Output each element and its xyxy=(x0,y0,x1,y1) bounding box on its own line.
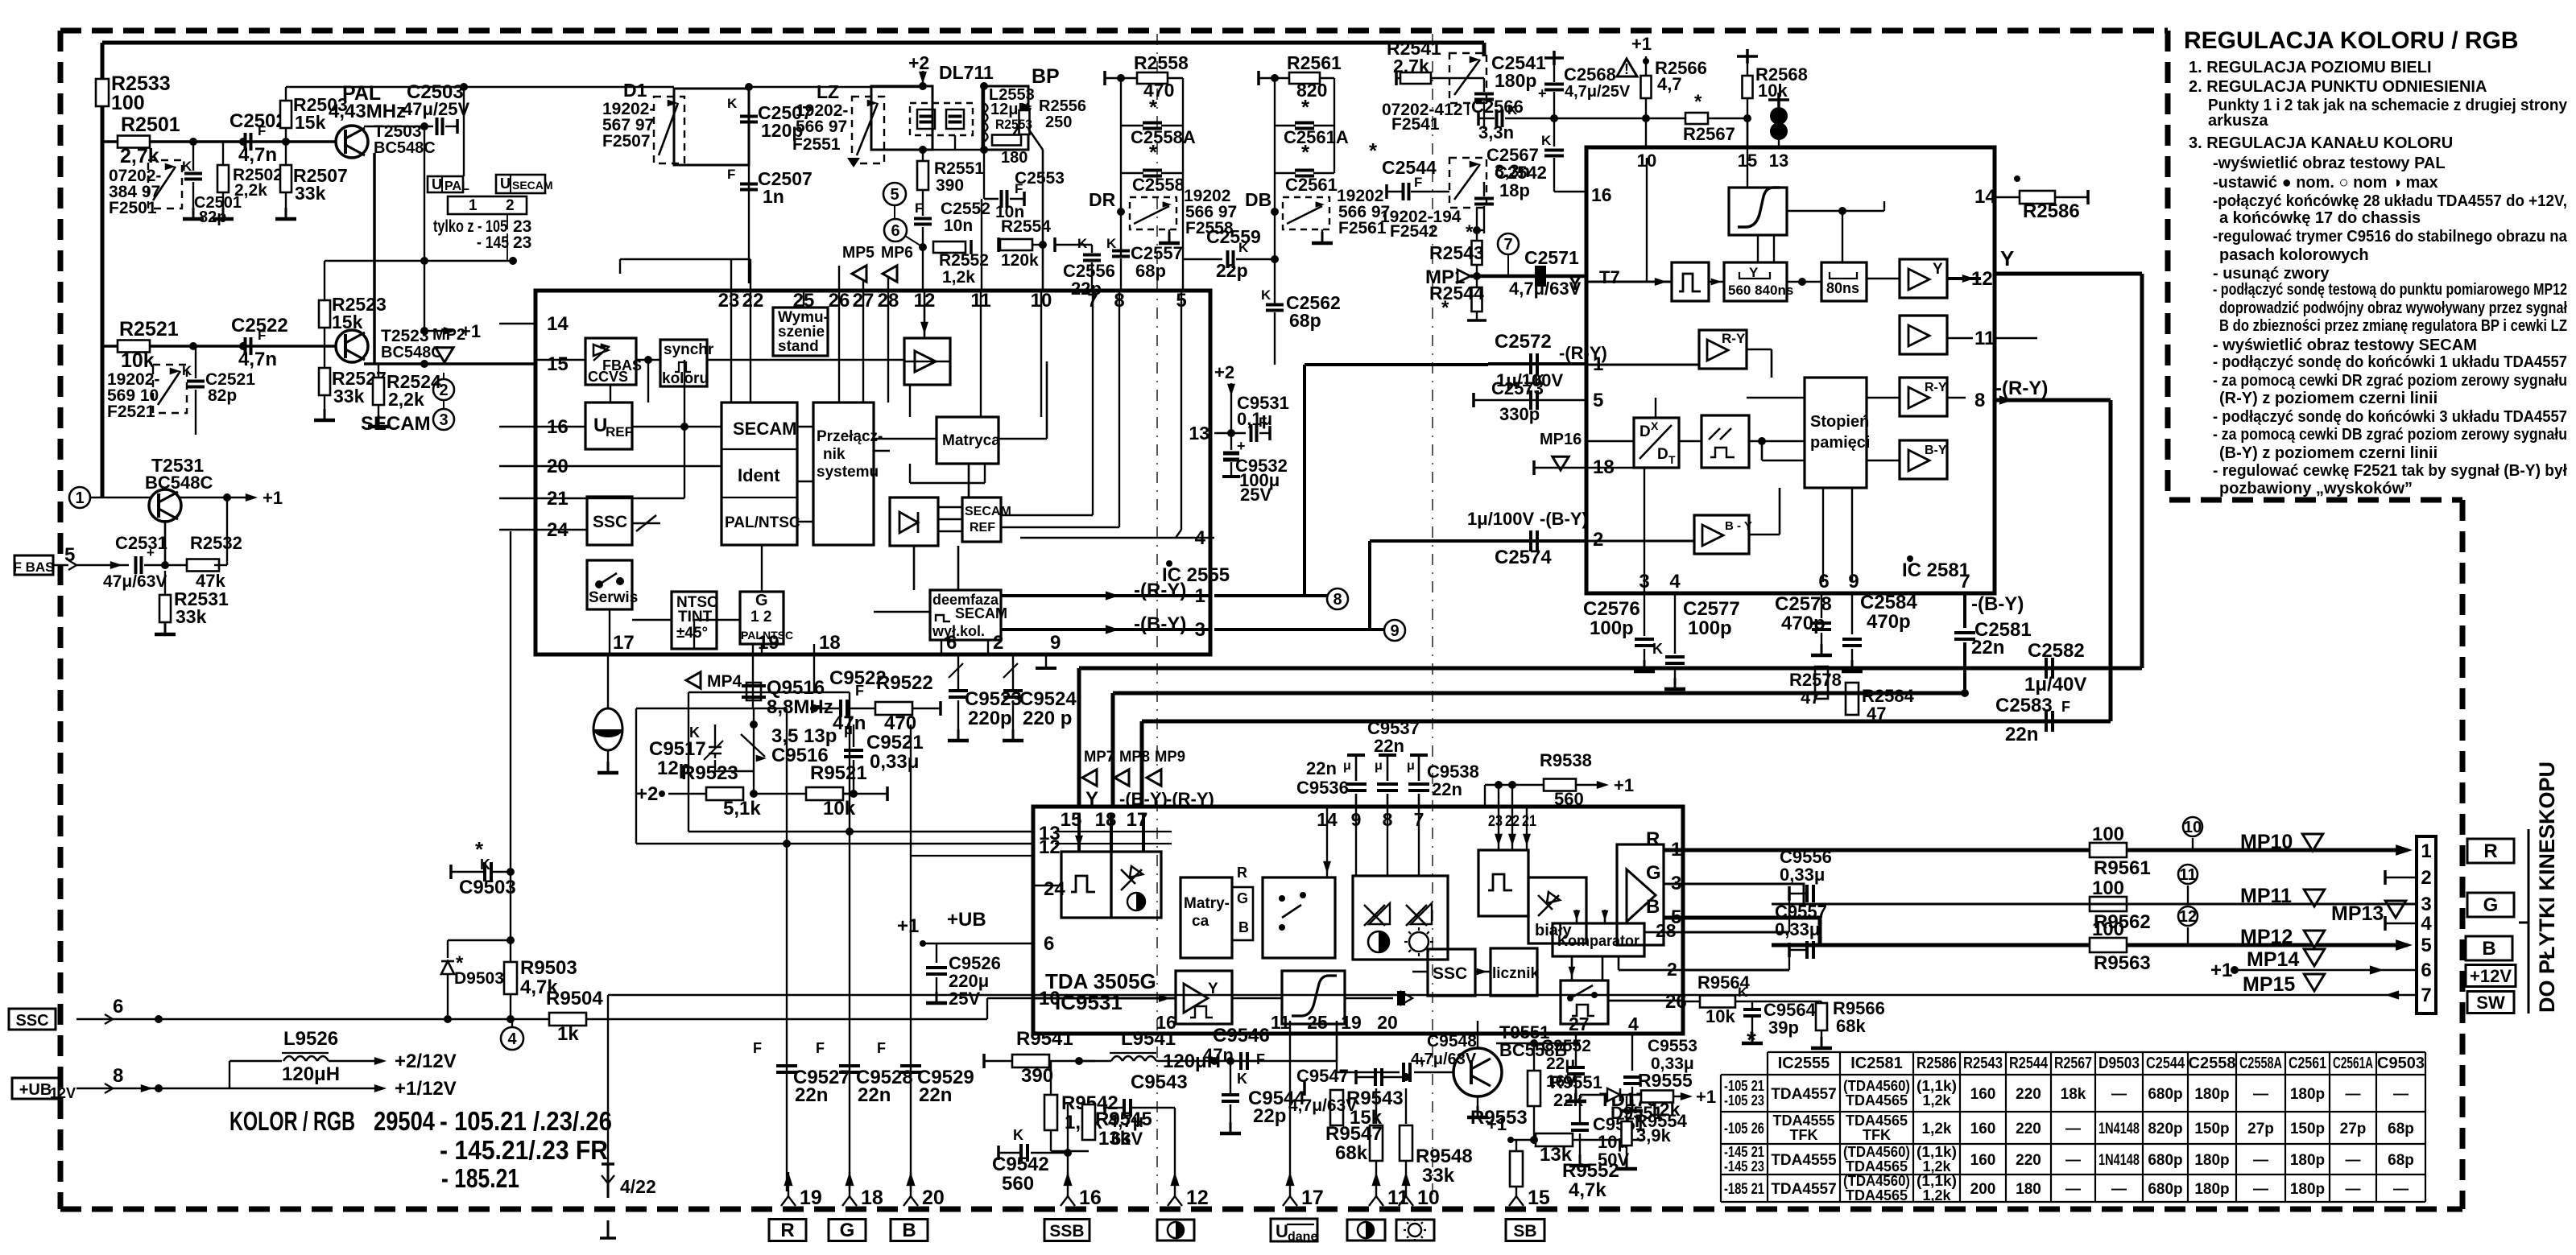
svg-text:MP16: MP16 xyxy=(1540,431,1582,448)
svg-text:DB: DB xyxy=(1245,189,1271,210)
svg-text:G: G xyxy=(1237,890,1248,906)
svg-text:—: — xyxy=(2253,1086,2268,1103)
svg-text:BC548C: BC548C xyxy=(145,473,213,493)
svg-text:F2501: F2501 xyxy=(109,199,157,217)
svg-text:—: — xyxy=(2346,1152,2361,1169)
svg-text:11: 11 xyxy=(1271,1012,1291,1033)
svg-text:180p: 180p xyxy=(2194,1152,2229,1169)
svg-text:-wyświetlić obraz testowy: -wyświetlić obraz testowy PAL xyxy=(2213,155,2446,172)
svg-text:39p: 39p xyxy=(1768,1018,1799,1038)
svg-text:SB: SB xyxy=(1513,1222,1536,1241)
svg-text:470: 470 xyxy=(1143,80,1174,101)
svg-text:8: 8 xyxy=(1333,591,1342,609)
svg-text:390: 390 xyxy=(936,176,964,195)
svg-text:TFK: TFK xyxy=(1790,1127,1818,1143)
svg-text:—: — xyxy=(2346,1181,2361,1198)
svg-text:Matry-: Matry- xyxy=(1184,895,1230,912)
svg-text:—: — xyxy=(2253,1152,2268,1169)
svg-text:- regulować cewkę F2521 tak: - regulować cewkę F2521 tak by sygnał (B… xyxy=(2213,462,2567,480)
svg-text:K: K xyxy=(1541,133,1552,148)
svg-text:K: K xyxy=(1238,240,1249,255)
svg-text:2,2k: 2,2k xyxy=(388,389,424,410)
svg-text:10: 10 xyxy=(1417,1187,1440,1209)
svg-text:Stopień: Stopień xyxy=(1810,413,1869,431)
svg-text:MP4: MP4 xyxy=(707,672,742,691)
svg-text:R: R xyxy=(1646,828,1660,850)
svg-text:F: F xyxy=(877,1040,886,1056)
svg-text:- podłączyć sondę do końc: - podłączyć sondę do końcówki 1 układu T… xyxy=(2213,353,2567,371)
svg-text:-ustawić ● nom. ○ nom: -ustawić ● nom. ○ nom ◑ max xyxy=(2213,174,2438,192)
svg-text:9: 9 xyxy=(1390,622,1399,640)
svg-text:2: 2 xyxy=(993,632,1003,654)
svg-text:REF: REF xyxy=(970,521,995,535)
svg-text:18: 18 xyxy=(819,632,841,654)
svg-text:F: F xyxy=(1414,175,1422,190)
svg-text:+1/12V: +1/12V xyxy=(395,1078,457,1100)
svg-text:3: 3 xyxy=(1639,571,1649,592)
svg-text:-105 23: -105 23 xyxy=(1724,1092,1764,1108)
svg-text:TDA4555: TDA4555 xyxy=(1771,1152,1837,1169)
svg-text:TDA4557: TDA4557 xyxy=(1771,1086,1836,1103)
svg-text:6: 6 xyxy=(1818,571,1829,592)
svg-text:MP13: MP13 xyxy=(2331,902,2384,925)
svg-text:1 2: 1 2 xyxy=(750,609,771,625)
svg-text:3,3n: 3,3n xyxy=(1478,122,1514,142)
svg-text:1μ/40V: 1μ/40V xyxy=(2024,674,2086,696)
svg-text:Przełącz-: Przełącz- xyxy=(817,428,883,445)
svg-text:22p: 22p xyxy=(1216,260,1248,281)
svg-text:33k: 33k xyxy=(333,386,365,407)
svg-text:(TDA4560): (TDA4560) xyxy=(1843,1078,1910,1094)
svg-text:-(B-Y): -(B-Y) xyxy=(1971,593,2024,615)
svg-text:R2551: R2551 xyxy=(934,159,984,178)
svg-text:8: 8 xyxy=(1974,390,1985,411)
svg-text:4: 4 xyxy=(1628,1013,1639,1034)
svg-text:SW: SW xyxy=(2476,993,2505,1013)
svg-text:C2582: C2582 xyxy=(2028,640,2085,662)
svg-text:10n: 10n xyxy=(944,217,973,235)
svg-text:SECAM: SECAM xyxy=(512,179,553,192)
svg-text:6: 6 xyxy=(2421,960,2431,981)
svg-text:23: 23 xyxy=(1488,813,1503,830)
svg-text:68p: 68p xyxy=(2388,1152,2414,1169)
svg-text:Matryca: Matryca xyxy=(942,432,1000,449)
svg-text:23: 23 xyxy=(513,233,531,252)
svg-text:12: 12 xyxy=(1971,268,1993,290)
svg-text:—: — xyxy=(2393,1181,2409,1198)
svg-text:C2558A: C2558A xyxy=(2239,1055,2282,1072)
svg-text:100p: 100p xyxy=(1688,617,1732,639)
svg-text:K: K xyxy=(182,363,192,378)
svg-text:C9548: C9548 xyxy=(1427,1032,1477,1051)
svg-text:K: K xyxy=(182,159,192,174)
svg-text:6: 6 xyxy=(113,996,123,1018)
svg-text:C2544: C2544 xyxy=(1382,157,1437,178)
svg-text:1: 1 xyxy=(469,197,478,214)
svg-text:C9546: C9546 xyxy=(1213,1025,1270,1047)
svg-text:1k: 1k xyxy=(557,1023,579,1045)
svg-text:MP8: MP8 xyxy=(1119,749,1150,766)
svg-text:MP9: MP9 xyxy=(1155,749,1185,766)
svg-text:+1: +1 xyxy=(263,488,283,508)
svg-text:-(B-Y): -(B-Y) xyxy=(1540,509,1588,529)
svg-text:systemu: systemu xyxy=(817,464,879,481)
svg-text:1,2k: 1,2k xyxy=(1922,1092,1951,1108)
svg-text:250: 250 xyxy=(1045,114,1072,131)
svg-text:68k: 68k xyxy=(1836,1016,1866,1036)
svg-text:470p: 470p xyxy=(1867,611,1911,633)
svg-text:R2544: R2544 xyxy=(2009,1055,2049,1072)
svg-text:680p: 680p xyxy=(2148,1086,2182,1103)
svg-text:pozbawiony „wyskoków”: pozbawiony „wyskoków” xyxy=(2219,480,2413,497)
svg-text:R2501: R2501 xyxy=(121,114,180,136)
svg-text:100: 100 xyxy=(2092,919,2124,940)
svg-text:F2561: F2561 xyxy=(1338,219,1387,237)
svg-text:F: F xyxy=(258,123,266,138)
svg-text:C2573: C2573 xyxy=(1491,378,1544,398)
svg-text:C9503: C9503 xyxy=(459,877,516,898)
svg-text:a końcówkę 17 do chassis: a końcówkę 17 do chassis xyxy=(2219,209,2421,227)
svg-text:22n: 22n xyxy=(1374,736,1404,756)
svg-text:*: * xyxy=(1369,138,1378,163)
svg-text:C2572: C2572 xyxy=(1495,331,1552,353)
svg-text:12: 12 xyxy=(1039,836,1061,858)
svg-text:C2558: C2558 xyxy=(1132,175,1185,195)
svg-text:-105 26: -105 26 xyxy=(1724,1121,1764,1137)
svg-text:-(R-Y): -(R-Y) xyxy=(1166,789,1214,809)
svg-text:C9547: C9547 xyxy=(1296,1066,1349,1086)
svg-text:0,1μ: 0,1μ xyxy=(1237,409,1272,429)
svg-text:C2568: C2568 xyxy=(1564,64,1616,85)
svg-text:Y: Y xyxy=(1933,261,1943,278)
svg-text:L9526: L9526 xyxy=(283,1028,338,1050)
svg-text:R2553: R2553 xyxy=(995,117,1032,132)
svg-text:160: 160 xyxy=(1970,1086,1996,1103)
svg-text:-145 21: -145 21 xyxy=(1724,1144,1764,1160)
svg-text:22n: 22n xyxy=(1971,637,2004,658)
svg-text:- podłączyć sondę testową d: - podłączyć sondę testową do punktu pomi… xyxy=(2213,281,2567,299)
svg-text:(B-Y) z poziomem czerni: (B-Y) z poziomem czerni linii xyxy=(2219,444,2437,462)
svg-text:4: 4 xyxy=(507,1030,517,1048)
svg-text:B do zbiezności przez zmia: B do zbiezności przez zmianę regulatora … xyxy=(2219,317,2567,335)
svg-text:22n: 22n xyxy=(1432,779,1462,799)
svg-text:-185 21: -185 21 xyxy=(1724,1181,1764,1198)
svg-text:+: + xyxy=(1538,85,1547,101)
svg-text:F2541: F2541 xyxy=(1391,115,1440,134)
svg-text:(1,1k): (1,1k) xyxy=(1916,1144,1957,1160)
svg-text:T2523: T2523 xyxy=(381,327,429,345)
svg-text:F2521: F2521 xyxy=(107,403,155,421)
svg-text:27: 27 xyxy=(1569,1013,1590,1034)
svg-text:T7: T7 xyxy=(1599,267,1620,287)
svg-text:μ: μ xyxy=(1343,759,1351,773)
svg-text:pasach kolorowych: pasach kolorowych xyxy=(2219,246,2369,264)
svg-text:X: X xyxy=(1651,419,1659,432)
svg-text:11: 11 xyxy=(2179,866,2196,884)
svg-text:20: 20 xyxy=(922,1187,945,1209)
svg-text:R2567: R2567 xyxy=(2054,1055,2092,1072)
svg-text:820p: 820p xyxy=(2148,1121,2182,1137)
svg-text:22n: 22n xyxy=(2005,724,2038,745)
svg-text:MP10: MP10 xyxy=(2240,831,2293,853)
svg-text:D: D xyxy=(1639,423,1651,440)
svg-text:47n: 47n xyxy=(833,712,866,734)
svg-text:- 105.21 /.23/.26: - 105.21 /.23/.26 xyxy=(440,1106,612,1136)
svg-text:27p: 27p xyxy=(2247,1121,2274,1137)
svg-text:8,8MHz: 8,8MHz xyxy=(767,696,833,718)
svg-text:3: 3 xyxy=(439,411,448,429)
svg-text:F BAS: F BAS xyxy=(14,559,55,575)
svg-text:R9553: R9553 xyxy=(1470,1107,1528,1129)
svg-text:-(R-Y): -(R-Y) xyxy=(1134,580,1186,601)
svg-text:*: * xyxy=(1149,95,1158,119)
svg-text:9: 9 xyxy=(1848,571,1859,592)
svg-text:F2542: F2542 xyxy=(1390,222,1438,241)
svg-text:10k: 10k xyxy=(823,798,856,819)
svg-text:1N4148: 1N4148 xyxy=(2098,1152,2140,1169)
svg-text:+12V: +12V xyxy=(2470,966,2512,986)
svg-text:R2586: R2586 xyxy=(1916,1055,1957,1072)
svg-text:G: G xyxy=(840,1220,855,1241)
svg-text:- 185.21: - 185.21 xyxy=(441,1163,519,1193)
svg-text:160: 160 xyxy=(1970,1121,1996,1137)
svg-text:-105 21: -105 21 xyxy=(1724,1078,1764,1094)
svg-text:synchr: synchr xyxy=(664,341,714,358)
svg-text:100: 100 xyxy=(2092,824,2124,845)
svg-text:6: 6 xyxy=(946,632,957,654)
svg-text:R9523: R9523 xyxy=(681,762,738,784)
svg-text:R2561: R2561 xyxy=(1287,52,1342,73)
svg-text:22: 22 xyxy=(742,290,764,312)
svg-text:120k: 120k xyxy=(1001,251,1039,270)
svg-text:20: 20 xyxy=(1377,1012,1398,1033)
svg-text:R9561: R9561 xyxy=(2094,857,2151,879)
svg-text:R2552: R2552 xyxy=(939,251,989,270)
svg-text:C9524: C9524 xyxy=(1019,688,1077,710)
svg-text:nik: nik xyxy=(823,446,846,463)
svg-text:Y: Y xyxy=(2000,246,2014,270)
svg-text:+UB: +UB xyxy=(19,1081,52,1099)
svg-text:F: F xyxy=(753,1040,762,1056)
svg-text:BP: BP xyxy=(1032,65,1060,88)
svg-text:C2531: C2531 xyxy=(115,533,167,553)
svg-text:DR: DR xyxy=(1089,189,1116,210)
svg-text:1: 1 xyxy=(75,489,84,507)
svg-text:licznik: licznik xyxy=(1492,965,1540,982)
svg-text:R9547: R9547 xyxy=(1325,1123,1383,1145)
svg-text:100: 100 xyxy=(2092,877,2124,899)
svg-text:4,7μ/63V: 4,7μ/63V xyxy=(1288,1096,1357,1115)
svg-text:1μ/100V: 1μ/100V xyxy=(1467,509,1535,529)
svg-text:180p: 180p xyxy=(2290,1181,2325,1198)
svg-text:LZ: LZ xyxy=(817,81,839,102)
svg-text:7: 7 xyxy=(1503,236,1512,254)
svg-text:25V: 25V xyxy=(1240,485,1271,505)
svg-text:28: 28 xyxy=(1656,920,1677,941)
svg-text:R9541: R9541 xyxy=(1016,1028,1073,1050)
svg-text:*: * xyxy=(1441,297,1449,319)
svg-text:2: 2 xyxy=(1667,959,1677,980)
svg-text:C9521: C9521 xyxy=(866,732,924,753)
svg-text:R2544: R2544 xyxy=(1429,283,1484,303)
svg-text:MP7: MP7 xyxy=(1084,749,1114,766)
svg-text:- 145: - 145 xyxy=(477,233,509,252)
svg-text:566 97: 566 97 xyxy=(796,118,847,136)
svg-text:12V: 12V xyxy=(50,1085,76,1101)
svg-text:1,2k: 1,2k xyxy=(942,268,975,287)
svg-text:14: 14 xyxy=(1974,186,1996,208)
svg-text:18: 18 xyxy=(861,1187,883,1209)
svg-text:180p: 180p xyxy=(2194,1086,2229,1103)
svg-text:5: 5 xyxy=(1593,390,1603,411)
svg-text:4,7k: 4,7k xyxy=(520,976,558,998)
svg-text:200: 200 xyxy=(1970,1181,1996,1198)
svg-text:MP14: MP14 xyxy=(2247,948,2299,971)
svg-text:R2532: R2532 xyxy=(190,533,242,553)
svg-text:TDA4565: TDA4565 xyxy=(1846,1092,1908,1108)
svg-text:MP12: MP12 xyxy=(2240,926,2293,948)
svg-text:K: K xyxy=(1738,985,1748,1000)
svg-text:±45°: ±45° xyxy=(676,625,708,642)
svg-text:R-Y: R-Y xyxy=(1722,331,1746,346)
svg-text:F: F xyxy=(816,1040,825,1056)
svg-text:pamięci: pamięci xyxy=(1810,434,1870,452)
svg-text:!: ! xyxy=(1624,61,1629,77)
svg-text:R: R xyxy=(2483,840,2497,862)
svg-text:4/22: 4/22 xyxy=(620,1176,656,1197)
svg-text:R: R xyxy=(1237,865,1247,881)
svg-text:19: 19 xyxy=(800,1187,822,1209)
svg-text:1,2k: 1,2k xyxy=(1922,1121,1952,1137)
svg-text:100p: 100p xyxy=(1590,617,1634,639)
svg-text:100: 100 xyxy=(111,92,145,114)
svg-text:T2503: T2503 xyxy=(374,122,422,141)
svg-text:—: — xyxy=(2393,1086,2409,1103)
svg-text:10k: 10k xyxy=(1706,1006,1735,1026)
svg-text:9: 9 xyxy=(1050,632,1061,654)
svg-text:R9538: R9538 xyxy=(1540,750,1592,770)
svg-text:KOLOR / RGB: KOLOR / RGB xyxy=(229,1106,355,1136)
svg-text:25: 25 xyxy=(1307,1012,1328,1033)
svg-text:560 840ns: 560 840ns xyxy=(1728,283,1793,298)
svg-text:—: — xyxy=(2065,1121,2081,1137)
svg-text:13: 13 xyxy=(1769,151,1788,171)
svg-text:TDA4565: TDA4565 xyxy=(1846,1158,1908,1174)
svg-text:680p: 680p xyxy=(2148,1181,2182,1198)
svg-text:F: F xyxy=(2061,699,2070,715)
svg-text:22n: 22n xyxy=(795,1084,828,1106)
svg-text:—: — xyxy=(2111,1086,2127,1103)
svg-text:—: — xyxy=(2346,1086,2361,1103)
svg-text:+2: +2 xyxy=(908,52,929,73)
svg-text:(1,1k): (1,1k) xyxy=(1916,1078,1957,1094)
svg-text:R9503: R9503 xyxy=(520,957,577,979)
svg-text:4: 4 xyxy=(2421,913,2432,935)
svg-text:4,43MHz: 4,43MHz xyxy=(329,101,406,122)
svg-text:B-Y: B-Y xyxy=(1925,444,1947,457)
svg-text:8: 8 xyxy=(113,1065,123,1087)
svg-text:C2574: C2574 xyxy=(1495,547,1552,568)
svg-text:68p: 68p xyxy=(1289,310,1321,331)
svg-text:6: 6 xyxy=(1044,933,1054,955)
svg-text:MP2: MP2 xyxy=(432,326,465,344)
svg-text:R9548: R9548 xyxy=(1416,1146,1473,1167)
svg-text:K: K xyxy=(727,96,738,111)
svg-text:SSB: SSB xyxy=(1049,1222,1084,1241)
svg-text:SECAM: SECAM xyxy=(361,413,431,435)
svg-text:Y: Y xyxy=(1749,265,1759,280)
svg-text:(R-Y) z poziomem czerni: (R-Y) z poziomem czerni linii xyxy=(2219,390,2437,407)
svg-text:68p: 68p xyxy=(1135,261,1166,281)
svg-text:220p: 220p xyxy=(968,708,1012,729)
svg-text:19: 19 xyxy=(1341,1012,1362,1033)
svg-text:SECAM: SECAM xyxy=(733,419,796,439)
svg-text:1,2k: 1,2k xyxy=(1922,1187,1951,1203)
svg-text:R2543: R2543 xyxy=(1429,242,1484,263)
svg-text:PAL: PAL xyxy=(444,180,469,193)
svg-text:29504: 29504 xyxy=(374,1106,436,1136)
svg-text:150p: 150p xyxy=(2290,1121,2325,1137)
svg-text:-regulować trymer C9516 do: -regulować trymer C9516 do stabilnego ob… xyxy=(2213,228,2568,246)
svg-text:1. REGULACJA POZIOMU BIELI: 1. REGULACJA POZIOMU BIELI xyxy=(2189,59,2432,76)
svg-text:22n: 22n xyxy=(919,1084,952,1106)
svg-text:C2559: C2559 xyxy=(1206,226,1261,247)
svg-text:*: * xyxy=(1301,140,1310,164)
svg-text:C2561A: C2561A xyxy=(2333,1055,2373,1072)
svg-text:R2558: R2558 xyxy=(1134,52,1189,73)
svg-text:B: B xyxy=(1646,896,1660,918)
svg-text:C2558A: C2558A xyxy=(1131,127,1196,147)
svg-text:C2583: C2583 xyxy=(1995,695,2053,716)
svg-text:4,7n: 4,7n xyxy=(238,144,277,166)
svg-text:15: 15 xyxy=(1528,1187,1550,1209)
svg-text:180p: 180p xyxy=(2290,1152,2325,1169)
svg-text:2: 2 xyxy=(506,197,515,214)
svg-text:—: — xyxy=(2065,1152,2081,1169)
svg-text:F: F xyxy=(855,683,864,699)
svg-text:180: 180 xyxy=(2016,1181,2041,1198)
svg-text:—: — xyxy=(2111,1181,2127,1198)
svg-text:15: 15 xyxy=(547,353,569,375)
svg-text:2,2k: 2,2k xyxy=(234,181,267,200)
svg-text:180: 180 xyxy=(1001,149,1028,167)
svg-text:K: K xyxy=(1507,102,1518,118)
svg-text:C2544: C2544 xyxy=(2146,1055,2185,1072)
svg-text:R2521: R2521 xyxy=(119,318,179,341)
svg-text:C2577: C2577 xyxy=(1683,598,1740,620)
svg-text:+: + xyxy=(147,545,155,560)
svg-text:C2561: C2561 xyxy=(1285,175,1338,195)
svg-text:220 p: 220 p xyxy=(1023,708,1072,729)
svg-text:390: 390 xyxy=(1021,1065,1053,1087)
svg-text:12: 12 xyxy=(2179,908,2197,926)
svg-text:18: 18 xyxy=(1095,809,1117,831)
svg-text:3: 3 xyxy=(2421,894,2431,915)
svg-text:D9503: D9503 xyxy=(454,969,504,988)
svg-text:R2556: R2556 xyxy=(1039,97,1086,115)
svg-text:G: G xyxy=(755,592,768,609)
svg-text:11: 11 xyxy=(1974,328,1995,349)
svg-text:10: 10 xyxy=(2184,819,2202,836)
svg-text:G: G xyxy=(2483,894,2499,916)
svg-text:C2561: C2561 xyxy=(2289,1055,2326,1072)
svg-text:4,7μ/63V: 4,7μ/63V xyxy=(1411,1051,1477,1068)
svg-text:(TDA4560): (TDA4560) xyxy=(1843,1144,1910,1160)
svg-text:K: K xyxy=(1237,1071,1247,1087)
svg-text:TDA4557: TDA4557 xyxy=(1771,1181,1836,1198)
svg-text:+2/12V: +2/12V xyxy=(395,1051,457,1072)
svg-text:220: 220 xyxy=(2016,1121,2041,1137)
